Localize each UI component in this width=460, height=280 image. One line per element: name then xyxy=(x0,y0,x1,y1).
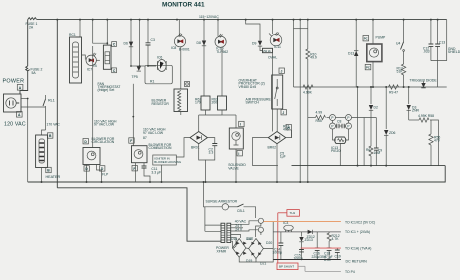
secondary taps lower xyxy=(231,235,241,249)
red wire 7VA xyxy=(301,247,341,249)
capacitor C9 xyxy=(374,118,382,166)
lamp IC6 xyxy=(157,56,166,72)
svg-text:HEATER: HEATER xyxy=(46,175,61,179)
svg-text:BLOWER HOUSING: BLOWER HOUSING xyxy=(154,160,182,164)
svg-text:POWER: POWER xyxy=(3,79,25,85)
secondary tap 24V2 xyxy=(231,227,264,232)
blower circulation motor M1 xyxy=(83,46,102,182)
svg-text:PC: PC xyxy=(364,37,368,41)
marker D bottom xyxy=(84,166,89,171)
diode D10 xyxy=(369,105,378,146)
terminal circles T1-T4 xyxy=(330,115,377,130)
svg-text:115~120VAC: 115~120VAC xyxy=(199,15,219,19)
rail x309 with resistor R10 xyxy=(306,20,317,182)
wire drop x80 xyxy=(76,20,81,37)
svg-text:DC RETURN: DC RETURN xyxy=(346,260,368,264)
rectifier diamond BR2 xyxy=(246,237,272,266)
svg-text:R1: R1 xyxy=(150,80,154,84)
secondary tap 24V xyxy=(231,224,243,228)
marker F bottom xyxy=(132,166,137,171)
svg-text:D2: D2 xyxy=(374,106,378,110)
air pressure switch S2 xyxy=(272,75,283,109)
svg-text:PC: PC xyxy=(366,66,370,70)
red box BP SHUNT xyxy=(277,263,298,270)
svg-text:R55: R55 xyxy=(316,119,322,123)
marker I bottom xyxy=(237,151,242,156)
rectifier BR02 xyxy=(252,125,291,183)
svg-text:1µF: 1µF xyxy=(280,155,286,159)
svg-text:D8: D8 xyxy=(197,41,201,45)
GND SHIELD label xyxy=(431,20,460,87)
svg-text:1000µ: 1000µ xyxy=(294,257,304,261)
resistor R58 xyxy=(409,114,439,165)
svg-text:TO IC1 + (24VA): TO IC1 + (24VA) xyxy=(345,230,370,234)
wire drop x107 xyxy=(106,20,108,45)
svg-text:C8: C8 xyxy=(337,120,341,124)
svg-text:2W 2k: 2W 2k xyxy=(263,49,271,53)
svg-text:R6: R6 xyxy=(366,148,370,152)
wire plug lower to left rail xyxy=(27,99,29,183)
heater HT1 xyxy=(36,130,48,182)
svg-text:470: 470 xyxy=(283,128,289,132)
svg-text:IC11: IC11 xyxy=(274,45,281,49)
svg-text:U4: U4 xyxy=(396,42,400,46)
svg-text:3.3: 3.3 xyxy=(209,151,214,155)
wire drops from y87 xyxy=(370,87,372,104)
blower combustion motor M2 xyxy=(132,84,148,182)
svg-text:TB: TB xyxy=(92,64,97,68)
resistor R62 xyxy=(195,96,210,115)
gate arrows IC10 xyxy=(219,34,223,38)
neutral rail from bus xyxy=(56,20,58,188)
surge arrestor SA1 xyxy=(222,204,228,210)
pump rail xyxy=(355,20,357,87)
svg-text:R9 47: R9 47 xyxy=(389,91,398,95)
gate arrows IC8 xyxy=(178,34,182,38)
component RC1 xyxy=(69,33,82,83)
wire RC1 to opto xyxy=(82,55,86,60)
svg-text:C13: C13 xyxy=(439,41,445,45)
svg-text:97 VAC LOW: 97 VAC LOW xyxy=(143,131,164,135)
wire bridge bottom xyxy=(256,259,273,262)
wire x357.5 xyxy=(357,87,359,166)
triac IC10 xyxy=(215,20,228,96)
svg-text:IC8: IC8 xyxy=(171,46,176,50)
marker A top xyxy=(17,85,23,91)
gate arrows IC11 xyxy=(275,32,279,36)
svg-text:I: I xyxy=(240,123,241,127)
rail x293 xyxy=(293,20,295,87)
capacitor C8 xyxy=(336,120,346,129)
opto triac TB xyxy=(86,53,100,72)
resistor R6 xyxy=(366,146,380,166)
svg-text:D13: D13 xyxy=(348,52,354,56)
capacitor C11 xyxy=(142,166,162,182)
pump motor xyxy=(367,20,382,87)
svg-text:6.3V: 6.3V xyxy=(324,258,332,262)
junction dots bus xyxy=(56,19,438,21)
red box TH1 xyxy=(278,210,300,217)
marker H xyxy=(286,125,291,130)
rectifier BR01 xyxy=(162,115,208,182)
svg-text:BR02: BR02 xyxy=(268,146,277,150)
svg-text:TP5: TP5 xyxy=(132,75,138,79)
wire bridge out xyxy=(263,222,273,249)
diode D13 xyxy=(348,51,358,56)
svg-text:SURGE ARRESTOR: SURGE ARRESTOR xyxy=(206,200,238,204)
wire x300-x309 top link xyxy=(294,28,308,30)
resistor R63 xyxy=(212,96,227,115)
secondary tap 40VAC xyxy=(231,218,264,224)
wire y118 with resistor R55 xyxy=(308,111,330,123)
fuse F1 xyxy=(28,18,37,20)
svg-text:TO P4: TO P4 xyxy=(345,270,355,274)
plug P1 xyxy=(4,94,46,112)
diode D8 xyxy=(197,20,207,96)
resistor R9 xyxy=(389,85,399,95)
svg-text:D18: D18 xyxy=(246,237,252,241)
wire to P4 xyxy=(298,265,305,267)
svg-text:F: F xyxy=(133,167,135,171)
svg-text:VR480 Ω±5: VR480 Ω±5 xyxy=(239,85,257,89)
svg-text:3.3 µF: 3.3 µF xyxy=(151,170,161,174)
svg-text:COMBUSTION: COMBUSTION xyxy=(149,146,173,150)
igniter IC13 PIEZO xyxy=(331,129,349,166)
svg-text:SHIELD: SHIELD xyxy=(448,50,460,54)
marker D bottom2 xyxy=(100,166,105,171)
svg-text:40 VAC: 40 VAC xyxy=(235,219,247,223)
marker A bottom xyxy=(17,112,23,118)
svg-text:D9: D9 xyxy=(252,42,256,46)
svg-text:CB-1: CB-1 xyxy=(237,209,245,213)
capacitor C19 xyxy=(335,248,341,259)
breaker CB-1 xyxy=(229,204,256,218)
regulator IC3 xyxy=(283,221,293,232)
svg-text:ZD6: ZD6 xyxy=(389,131,396,135)
svg-text:1000µ: 1000µ xyxy=(273,251,283,255)
svg-text:D20: D20 xyxy=(266,241,272,245)
capacitor C16 xyxy=(312,232,327,260)
capacitor C1 xyxy=(206,138,218,160)
marker PC top xyxy=(363,36,369,41)
svg-text:TH1: TH1 xyxy=(290,211,296,215)
svg-text:4.99: 4.99 xyxy=(316,111,323,115)
resistor R56 xyxy=(429,120,441,166)
svg-text:TO IC1/IC2 (5V DC): TO IC1/IC2 (5V DC) xyxy=(345,221,375,225)
svg-text:FLP: FLP xyxy=(102,173,109,177)
wire fuse2 to plug xyxy=(20,71,28,94)
bottom rail 2 xyxy=(57,188,221,241)
marker C top xyxy=(112,42,117,47)
capacitor C18 xyxy=(324,248,333,262)
resistor R8 xyxy=(303,85,313,95)
rail x300 xyxy=(299,20,301,182)
marker B top xyxy=(48,133,53,138)
relay contact RL1 xyxy=(43,95,55,130)
control line y87 xyxy=(294,86,447,88)
svg-text:4.99K: 4.99K xyxy=(303,91,313,95)
resistor R17 xyxy=(397,64,406,87)
wire drop TP5 xyxy=(139,20,141,66)
resistor R21 xyxy=(327,232,340,248)
svg-text:97 VAC LOW: 97 VAC LOW xyxy=(94,123,115,127)
svg-text:IC7: IC7 xyxy=(87,68,92,72)
capacitor C13 xyxy=(435,20,445,61)
triac IC8 xyxy=(171,20,190,89)
dc return rail xyxy=(273,259,341,261)
rectifier diamond BR1 xyxy=(231,237,253,257)
svg-text:4.7K: 4.7K xyxy=(332,237,340,241)
marker J bottom xyxy=(281,110,286,115)
svg-text:RESISTOR: RESISTOR xyxy=(152,102,170,106)
svg-text:J: J xyxy=(281,69,283,73)
svg-text:IC3: IC3 xyxy=(283,221,288,225)
wire overheat to return xyxy=(291,130,293,138)
svg-text:51K: 51K xyxy=(397,70,404,74)
svg-text:C9: C9 xyxy=(378,149,382,153)
capacitor C14 xyxy=(273,232,284,260)
marker F top xyxy=(129,138,134,143)
svg-text:C19: C19 xyxy=(335,255,341,259)
svg-text:J: J xyxy=(282,111,284,115)
left rail wire xyxy=(27,20,29,66)
marker J top xyxy=(279,68,284,73)
svg-text:.033: .033 xyxy=(423,50,430,54)
svg-text:470: 470 xyxy=(434,139,440,143)
svg-text:ZD13: ZD13 xyxy=(305,238,313,242)
marker C bottom xyxy=(112,68,117,73)
wire BR1-BR2 link xyxy=(246,247,249,250)
svg-text:C3: C3 xyxy=(151,38,155,42)
svg-text:I: I xyxy=(238,152,239,156)
svg-text:RL1: RL1 xyxy=(48,99,55,103)
trigger diode D14 xyxy=(421,81,425,88)
svg-text:SWITCH: SWITCH xyxy=(246,101,260,105)
marker B bottom xyxy=(46,167,51,172)
svg-text:D19: D19 xyxy=(246,259,252,263)
diode ZD6 xyxy=(384,87,396,166)
svg-text:D16: D16 xyxy=(231,237,237,241)
svg-text:TO IC1A) (7VA A): TO IC1A) (7VA A) xyxy=(345,246,371,250)
fuse F2 xyxy=(26,66,30,71)
svg-text:BR01: BR01 xyxy=(191,146,200,150)
resistor box R64 xyxy=(263,48,278,131)
wire drop x93 to thermostat xyxy=(93,20,108,45)
wire 40vac terminal down xyxy=(256,223,261,237)
svg-text:XFMR: XFMR xyxy=(217,249,227,253)
svg-text:4.99K R58: 4.99K R58 xyxy=(418,114,434,118)
svg-text:170 VAC: 170 VAC xyxy=(47,123,61,127)
svg-text:D6: D6 xyxy=(124,42,128,46)
subcircuit box R1 xyxy=(145,65,172,84)
capacitor C15 xyxy=(294,250,304,261)
diode D9 xyxy=(246,20,263,51)
svg-text:MONITOR 441: MONITOR 441 xyxy=(162,1,205,8)
svg-text:CIRCULATION: CIRCULATION xyxy=(92,140,115,144)
LED D7 xyxy=(131,66,145,79)
svg-text:VALVE: VALVE xyxy=(228,166,239,170)
diode D6 xyxy=(124,20,134,66)
orange wire 5VDC xyxy=(264,221,341,223)
connector to blower resistor xyxy=(185,82,190,87)
svg-text:120 VAC: 120 VAC xyxy=(4,122,26,128)
diode D11 xyxy=(407,87,420,120)
wire air switch to BR02 xyxy=(276,109,278,132)
svg-text:(fridge) Set: (fridge) Set xyxy=(98,88,115,92)
transformer T1 xyxy=(216,223,231,253)
lv bus 24VA xyxy=(273,231,341,233)
blower resistor R2 xyxy=(152,89,188,115)
svg-text:F: F xyxy=(130,139,132,143)
capacitor C3 xyxy=(146,20,157,66)
marker D left xyxy=(83,139,88,144)
marker I top xyxy=(239,121,244,126)
svg-text:BP SHUNT: BP SHUNT xyxy=(279,265,294,269)
wire BR1 bottom xyxy=(239,257,256,262)
switch U4 xyxy=(396,20,405,64)
triac IC11 xyxy=(269,20,282,49)
wire rail to arrestor xyxy=(204,182,223,207)
junction dots rails xyxy=(27,19,410,183)
IGNITER label xyxy=(153,155,177,165)
top bus 115-120VAC xyxy=(37,19,447,21)
svg-text:49.9: 49.9 xyxy=(310,56,317,60)
svg-text:170: 170 xyxy=(195,101,201,105)
svg-text:OVHL: OVHL xyxy=(268,56,277,60)
wire x364 xyxy=(363,118,365,166)
diode D112 xyxy=(307,230,315,239)
svg-text:RC1: RC1 xyxy=(69,33,76,37)
svg-text:87: 87 xyxy=(143,136,147,140)
fan thermostat S1 xyxy=(103,45,111,69)
control return rail xyxy=(292,165,446,167)
wire resistor bottoms xyxy=(199,114,222,116)
svg-text:IC6: IC6 xyxy=(157,56,162,60)
svg-text:2A: 2A xyxy=(29,25,34,29)
svg-text:PUMP: PUMP xyxy=(376,36,387,40)
svg-text:ZNR: ZNR xyxy=(412,109,420,113)
diode ZD13 xyxy=(299,232,313,260)
marker PC bottom xyxy=(365,64,371,69)
svg-text:5A: 5A xyxy=(32,71,37,75)
red wire shunt xyxy=(277,213,279,263)
wire primary feeds xyxy=(204,207,205,232)
capacitor C12 xyxy=(423,20,433,61)
solenoid valve SV1 xyxy=(222,115,243,182)
bottom rail left xyxy=(28,166,446,182)
svg-text:24 V: 24 V xyxy=(235,228,243,232)
svg-text:200: 200 xyxy=(212,101,218,105)
